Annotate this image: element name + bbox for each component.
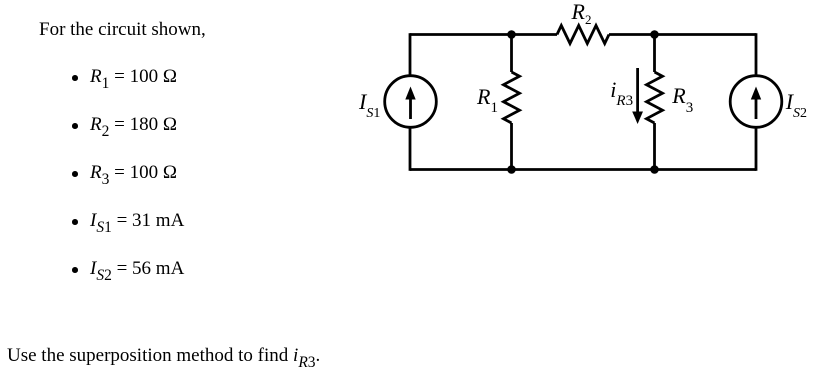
current arrow iR3 — [632, 68, 643, 124]
wire left vertical lower — [409, 127, 412, 170]
wire right vertical lower — [755, 127, 758, 170]
label R1 — [477, 86, 498, 108]
resistor R1 — [504, 72, 520, 123]
label IS2 — [786, 91, 807, 113]
label IS1 — [359, 91, 380, 113]
bullet IS2 — [72, 267, 78, 273]
resistor R3 branch wire top — [653, 35, 656, 73]
resistor R3 branch wire bottom — [653, 123, 656, 170]
question line — [7, 346, 320, 365]
label R3 — [672, 85, 693, 107]
current source IS1 — [385, 76, 437, 128]
current source IS2 — [730, 76, 782, 128]
node bottom-right junction — [650, 165, 659, 174]
resistor R1 branch wire top — [510, 35, 513, 73]
problem statement line — [39, 20, 206, 39]
resistor R1 branch wire bottom — [510, 123, 513, 170]
label iR3 — [610, 79, 633, 101]
resistor R2 — [557, 26, 609, 44]
wire top-right segment — [609, 33, 756, 36]
bullet R3 — [72, 171, 78, 177]
node bottom-left junction — [507, 165, 516, 174]
bullet IS1 — [72, 219, 78, 225]
node top-left junction — [507, 30, 516, 39]
wire right vertical upper — [755, 33, 758, 75]
bullet R1 — [72, 75, 78, 81]
wire left vertical upper — [409, 33, 412, 75]
resistor R3 — [647, 72, 663, 123]
wire bottom — [410, 168, 756, 171]
wire top-left segment — [410, 33, 557, 36]
bullet R2 — [72, 123, 78, 129]
label R2 — [572, 1, 592, 23]
node top-right junction — [650, 30, 659, 39]
